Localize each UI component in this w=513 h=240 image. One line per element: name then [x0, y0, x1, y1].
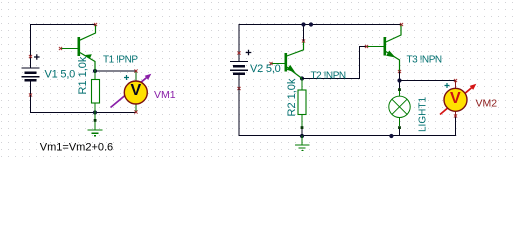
pin x VM1 bottom: [134, 110, 137, 113]
junction T2 emitter node: [300, 76, 304, 80]
pin x VM2 bottom: [454, 114, 457, 117]
resistor R2: [298, 79, 306, 128]
wire V2 bottom rail: [239, 89, 456, 136]
pin x T1 base: [59, 47, 62, 50]
svg-text:LIGHT1: LIGHT1: [418, 97, 429, 132]
pin x battery V1 bottom: [29, 93, 32, 96]
pin x battery V1 top: [29, 55, 32, 58]
wire R2 pin to ground node: [301, 129, 303, 136]
battery V1 plus polarity mark: [34, 54, 40, 60]
junction rail dot near lamp: [389, 134, 393, 138]
junction rail dot 2: [309, 22, 313, 26]
svg-text:V2 5,0: V2 5,0: [250, 63, 281, 75]
svg-text:Vm1=Vm2+0.6: Vm1=Vm2+0.6: [40, 141, 113, 153]
svg-text:R1 1,0k: R1 1,0k: [77, 56, 89, 94]
wire emitter node to VM1 top: [95, 70, 136, 72]
battery V2: [230, 53, 248, 89]
pin x VM1 top: [134, 69, 137, 72]
junction ground node left: [93, 110, 97, 114]
pin x VM2 top: [454, 79, 457, 82]
junction ground node right: [300, 134, 304, 138]
svg-text:V: V: [130, 82, 141, 99]
pin x battery V2 top: [237, 51, 240, 54]
R2 bottom pin square: [301, 126, 304, 129]
transistor T1 PNP: [61, 25, 96, 72]
ground left pin square: [94, 119, 97, 122]
wire V1 bottom to ground rail: [31, 95, 137, 113]
pin x T2 base: [269, 62, 272, 65]
pin x T1 collector at rail end: [94, 23, 97, 26]
junction rail dot 1: [301, 22, 305, 26]
lamp LIGHT1: [389, 88, 410, 129]
transistor T3 NPN: [367, 25, 402, 72]
battery V1: [22, 57, 40, 96]
ground symbol right: [295, 136, 310, 151]
wire V1+ rail top left: [31, 24, 96, 57]
pin x battery V2 bottom: [237, 87, 240, 90]
pin x T3 collector at rail end: [400, 23, 403, 26]
svg-text:V1 5,0: V1 5,0: [45, 69, 76, 81]
voltmeter VM2 (selected, red): [440, 81, 476, 117]
ground symbol left: [88, 113, 103, 136]
resistor R1: [92, 71, 100, 113]
svg-text:T1 !PNP: T1 !PNP: [103, 55, 138, 66]
transistor T2 NPN: [271, 41, 304, 79]
svg-text:T2 !NPN: T2 !NPN: [311, 70, 346, 81]
svg-text:V: V: [450, 90, 461, 107]
svg-text:R2 1,0k: R2 1,0k: [286, 78, 298, 116]
wire node to VM2 top: [400, 80, 456, 82]
svg-text:VM1: VM1: [154, 89, 176, 101]
pin x T3 emitter: [398, 70, 401, 73]
battery V2 plus polarity mark: [246, 50, 252, 56]
pin x T2 collector: [302, 39, 305, 42]
wire T2 collector to rail: [303, 25, 305, 42]
wire T2 emitter to T3 base: [302, 47, 367, 79]
junction T1 emitter node: [93, 69, 97, 73]
wire V2+ rail top right: [239, 24, 402, 53]
svg-text:VM2: VM2: [476, 98, 498, 110]
wire T3 emitter down to lamp: [399, 72, 401, 90]
VM2 plus mark: [445, 83, 450, 88]
voltmeter VM1: [111, 71, 152, 113]
junction lamp/meter node: [397, 78, 401, 82]
wire lamp bottom to rail: [399, 129, 401, 136]
VM1 plus mark: [124, 75, 129, 80]
svg-text:T3 !NPN: T3 !NPN: [407, 55, 442, 66]
pin x T3 base: [365, 45, 368, 48]
